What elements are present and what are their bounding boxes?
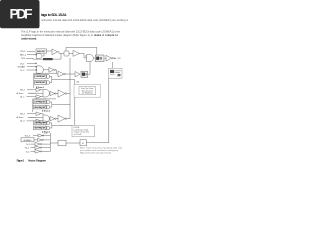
svg-text:MDL-2: MDL-2 — [20, 55, 27, 57]
annotation box Final Trip — [74, 85, 101, 98]
wire output TP — [113, 57, 115, 59]
wire T5 out — [42, 150, 51, 152]
gate U8a tri — [36, 88, 41, 92]
pair1 top rail — [34, 73, 56, 88]
wire T3 out — [42, 143, 51, 145]
gate U9a tri — [50, 91, 55, 95]
box B1 — [64, 51, 69, 56]
wire U11a to U11 — [56, 118, 58, 120]
wire U3 to latch box — [93, 57, 95, 59]
wire inline label out — [53, 54, 61, 60]
gate U5 OR — [37, 66, 44, 74]
U9 bubble — [65, 93, 67, 95]
U4 bubble — [112, 58, 113, 59]
gate T1 — [38, 134, 43, 137]
wire b3 — [45, 101, 48, 103]
wires U8 tris to D — [28, 90, 43, 97]
gate U11a tri — [50, 117, 55, 121]
svg-text:PDF: PDF — [10, 6, 33, 22]
wire B1 to gate U2 — [69, 52, 73, 54]
wire b5 — [45, 122, 48, 124]
svg-text:(21 WEA 015): (21 WEA 015) — [82, 92, 93, 95]
wire CL-2 input — [27, 69, 37, 71]
pair2 rail — [33, 99, 56, 112]
U9a bubble — [55, 93, 56, 94]
gate U2 — [73, 50, 80, 56]
svg-text:DATA SET: DATA SET — [37, 50, 46, 53]
box LOW FREQ 2 — [34, 100, 47, 104]
wire LK-3 input — [27, 62, 37, 64]
svg-text:High-level (refer attached she: High-level (refer attached sheet) — [80, 151, 111, 154]
wire U1 to inline label — [43, 53, 44, 56]
wire b6 — [45, 127, 48, 129]
wire A-Trace input — [28, 92, 36, 94]
wire SD-4b input — [27, 113, 36, 115]
wire MDL-2 input — [27, 54, 37, 56]
svg-text:TFG: TFG — [21, 58, 25, 60]
gate U11 — [58, 115, 65, 122]
wire SD-4 input — [27, 89, 36, 91]
gate D5 — [47, 121, 50, 125]
AND gate U3 — [87, 55, 94, 62]
box DATA SET — [36, 49, 47, 53]
feedback loop top — [66, 47, 97, 55]
wire b1 — [45, 75, 48, 77]
svg-text:ref 21-004: ref 21-004 — [74, 133, 82, 136]
buffer A1 — [52, 49, 58, 55]
bus bottom collect — [49, 133, 51, 151]
box HIGH FREQ 1 — [35, 80, 47, 84]
svg-text:4-Trace-1: 4-Trace-1 — [36, 86, 44, 89]
gate D4 — [47, 105, 50, 109]
svg-text:A-Trace: A-Trace — [17, 92, 25, 95]
svg-text:LOW FREQ SET: LOW FREQ SET — [34, 102, 46, 104]
gate D6 — [47, 126, 50, 130]
U6b bubble — [64, 73, 65, 74]
U5 input bubbles — [35, 63, 36, 64]
wire SDRAM out — [34, 139, 38, 141]
wire U2 to AND U3 — [80, 53, 87, 58]
wire GL-3 input — [27, 120, 37, 122]
gate U10 D — [43, 115, 49, 122]
box LOW FREQ 1 — [35, 74, 47, 78]
T1 bubble — [42, 135, 43, 136]
T5 bubble — [40, 151, 41, 152]
T2 bubble — [42, 139, 43, 140]
svg-text:make it simple to: make it simple to — [94, 34, 118, 37]
wire U5 out — [44, 69, 49, 71]
wire TFG input — [26, 57, 43, 60]
U11 bubble — [65, 118, 67, 120]
gate D2 — [47, 81, 50, 85]
svg-text:LTD-4: LTD-4 — [20, 51, 26, 53]
wire buffer out jog — [58, 52, 65, 54]
wire box1 to buffer — [47, 50, 53, 52]
wires U10 tris to D — [28, 114, 43, 121]
wire T1 out — [43, 135, 51, 137]
gate T2 — [38, 138, 43, 141]
legend box — [72, 125, 95, 136]
U1 input bubble — [36, 54, 37, 55]
box HIGH FREQ 2 — [34, 105, 47, 109]
wire b4 — [45, 106, 48, 108]
gate U10b tri — [36, 119, 41, 123]
bus line main — [69, 58, 71, 119]
wire T2 out — [43, 139, 51, 141]
box F2 — [80, 140, 86, 146]
svg-text:SCRAM: SCRAM — [18, 66, 26, 69]
inline dark label — [43, 58, 53, 60]
gate U7 — [75, 72, 80, 77]
wire U6b to U7 — [65, 73, 75, 75]
latch2 box dark — [81, 71, 88, 77]
gate U8 D — [43, 90, 49, 98]
wire TDL input — [33, 135, 38, 137]
wire Tx2 input — [31, 143, 36, 145]
U3 input stubs — [85, 55, 87, 57]
T3 bubble — [40, 143, 41, 144]
latch box dark — [95, 55, 104, 62]
svg-text:Figure 1: Figure 1 — [17, 158, 25, 162]
wire U11 to bus — [67, 118, 70, 120]
wire T4 out — [42, 147, 51, 149]
wire U8 to U9a — [48, 92, 51, 94]
wire GL2 input — [31, 147, 36, 149]
svg-text:LP2: LP2 — [45, 133, 48, 135]
gate U4 — [106, 55, 112, 61]
wire U9a to U9 — [56, 93, 58, 95]
wire b2 — [45, 81, 48, 83]
gate U1 small OR — [37, 54, 43, 59]
svg-text:Vector Diagram: Vector Diagram — [28, 158, 47, 162]
wire F1 to F2 — [66, 142, 80, 144]
svg-text:HIGH FREQ SET: HIGH FREQ SET — [35, 82, 46, 84]
wire annotation to legend — [74, 97, 76, 125]
svg-text:LOW FREQ SET: LOW FREQ SET — [35, 76, 46, 78]
U11a bubble — [55, 118, 56, 119]
T4 bubble — [40, 147, 41, 148]
feedback loop right side — [86, 78, 108, 142]
gate U9 — [58, 90, 65, 97]
svg-text:A-Trace: A-Trace — [17, 116, 25, 119]
svg-text:HIGH FREQ SET: HIGH FREQ SET — [34, 128, 46, 130]
box SDRAM label — [21, 138, 34, 142]
svg-text:LOW FREQ SET: LOW FREQ SET — [34, 123, 46, 125]
gate D3 — [47, 100, 50, 104]
wire latch to U4 — [105, 57, 106, 59]
wire GL-1 input — [27, 96, 37, 98]
PDF badge — [0, 0, 40, 28]
svg-text:understand.: understand. — [21, 37, 37, 41]
merge pair2 — [50, 102, 70, 107]
gate D1 — [47, 75, 50, 79]
gate U6 — [49, 67, 54, 72]
gate T5 — [35, 150, 41, 153]
svg-text:SDRAM-2: SDRAM-2 — [23, 139, 31, 142]
wire bottom to box F1 — [50, 142, 58, 144]
box F1 — [58, 140, 66, 146]
gate U6b — [58, 71, 64, 77]
merge pair1 — [50, 76, 75, 84]
wire SCRAM input — [27, 66, 37, 68]
svg-text:TDL-4: TDL-4 — [25, 135, 30, 137]
svg-text:GL-2: GL-2 — [25, 148, 29, 150]
output arrowhead — [115, 57, 117, 59]
wire U10 to U11a — [48, 118, 51, 120]
svg-text:LM: LM — [77, 81, 80, 83]
box LOW FREQ 3 — [34, 121, 47, 125]
U6 bubble — [54, 69, 55, 70]
gate U8b tri — [36, 95, 41, 99]
svg-text:nstruction manual data with 21: nstruction manual data with 21G2-ED1b da… — [41, 19, 128, 22]
status box — [109, 68, 123, 78]
wire Tx4 input — [31, 150, 36, 152]
svg-text:Tx-4: Tx-4 — [26, 151, 30, 153]
svg-text:Tx-2: Tx-2 — [26, 144, 30, 146]
merge pair3 — [50, 123, 72, 128]
box HIGH FREQ 3 — [34, 126, 47, 130]
svg-text:lags to SDL 15.2A: lags to SDL 15.2A — [41, 13, 67, 17]
gate T3 — [35, 142, 41, 145]
wire U9 to bus — [67, 93, 70, 95]
svg-text:HIGH FREQ SET: HIGH FREQ SET — [34, 107, 46, 109]
wire LTD-4 input — [27, 50, 35, 52]
svg-text:4-Trace-2: 4-Trace-2 — [42, 109, 50, 112]
wire U4 to status box — [112, 62, 114, 68]
gate T4 — [35, 146, 41, 149]
wire U6 jog — [55, 70, 58, 74]
gate U10a tri — [36, 112, 41, 116]
wire latch2 out — [88, 62, 91, 75]
wire A-Traceb input — [28, 116, 36, 118]
